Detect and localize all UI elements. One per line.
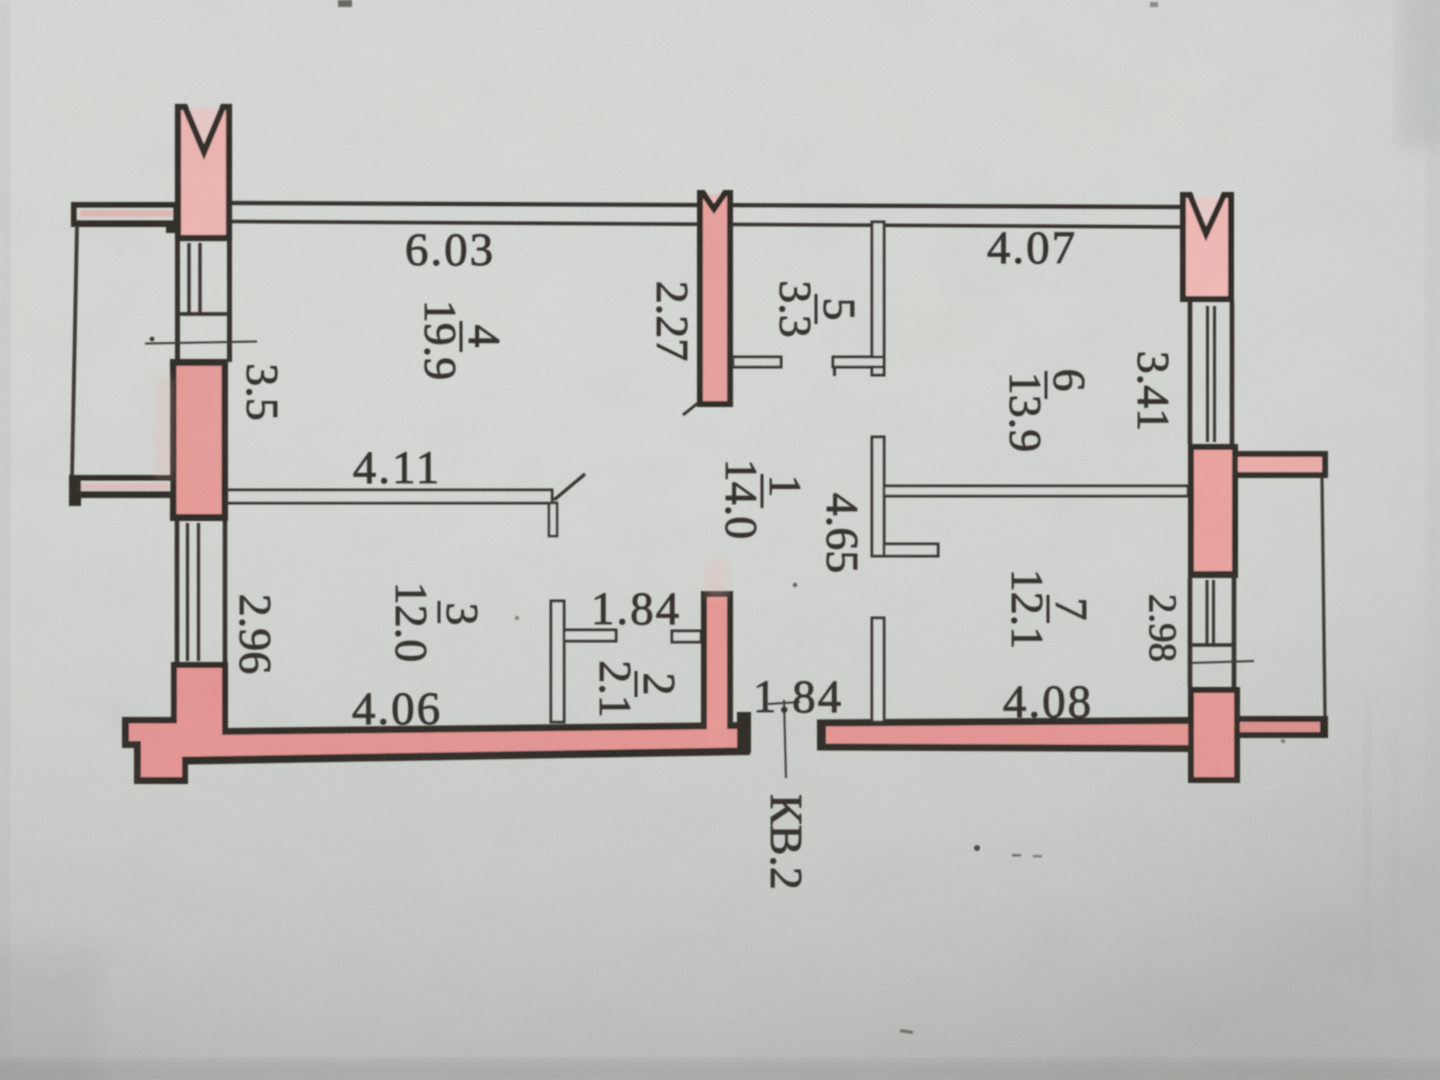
partition foot room 5 xyxy=(833,357,884,376)
partition rooms 1/7 (lower segment) xyxy=(872,618,884,722)
dimension text 2.27 rotated xyxy=(647,281,698,362)
dimension text 4.06 xyxy=(352,683,442,735)
balcony front line (left) xyxy=(72,226,77,476)
left wall window 1 glazing xyxy=(189,243,200,313)
top wall upper line xyxy=(232,203,1181,207)
room label 3/12.0 xyxy=(386,582,488,663)
dimension tick 2.98 xyxy=(1191,661,1254,663)
right wall window 2 glazing xyxy=(1207,580,1214,645)
right wall red block (middle) xyxy=(1188,444,1238,578)
center red wall 2.27 (V notch) xyxy=(683,193,730,415)
dimension text 6.03 xyxy=(405,224,495,276)
wall cross block bottom-right xyxy=(1188,687,1240,783)
ventilation block top-left (V notch) xyxy=(178,107,229,238)
left wall window 1 sill xyxy=(175,312,232,316)
partition rooms 5/6 xyxy=(872,222,884,375)
balcony front line (right) xyxy=(1322,478,1325,716)
dimension text 4.07 xyxy=(987,222,1077,274)
dimension text 4.11 xyxy=(353,442,442,494)
apartment label KV.2 rotated xyxy=(761,794,812,890)
dimension text 1.84 entrance xyxy=(753,671,843,723)
red wall room 2 / entrance xyxy=(701,591,751,753)
wall 4.11 between rooms 4/3 xyxy=(227,474,585,536)
paper specks xyxy=(338,0,1285,1034)
room label 2/2.1 xyxy=(590,660,685,718)
dimension text 4.65 rotated xyxy=(817,493,868,574)
stub wall right of center red wall xyxy=(733,357,781,367)
dimension text 3.5 rotated xyxy=(237,363,288,421)
balcony top wall (left) xyxy=(71,202,178,233)
dimension text 2.96 rotated xyxy=(230,594,281,675)
top wall lower line xyxy=(232,222,1181,228)
room label 7/12.1 xyxy=(1002,569,1097,650)
right wall window 1 faces xyxy=(1190,302,1232,444)
room label 1/14.0 xyxy=(716,459,811,540)
partition rooms 1/6 (mid segment) xyxy=(872,437,938,556)
dimension text 1.84 room 2 xyxy=(591,583,681,635)
partition rooms 3/2 xyxy=(551,601,564,722)
balcony bottom wall (left) xyxy=(69,475,175,506)
ventilation block top-right (V notch) xyxy=(1183,195,1231,299)
left wall window 1 faces xyxy=(178,241,230,362)
dimension text 2.98 rotated xyxy=(1141,594,1184,662)
room label 6/13.9 xyxy=(1000,369,1095,453)
red arm top of right balcony xyxy=(1232,451,1328,478)
bottom wall right segment xyxy=(817,717,1190,752)
pink smudge left of block xyxy=(155,378,173,478)
room 2 door stub left xyxy=(564,630,616,641)
left wall window 2 faces xyxy=(177,521,225,665)
room 2 door stub right xyxy=(672,631,701,642)
right wall window 1 glazing xyxy=(1208,306,1215,442)
balcony bottom bar (right) xyxy=(1240,716,1328,738)
red pencil streak above room 2 wall xyxy=(706,558,728,598)
right wall window 2 sill xyxy=(1188,643,1236,647)
entrance dimension line xyxy=(768,700,800,778)
right wall window 2 faces xyxy=(1190,578,1234,687)
room label 5/3.3 xyxy=(770,280,865,338)
room label 4/19.9 xyxy=(415,300,510,381)
bottom-left corner + bottom wall left segment xyxy=(122,662,750,784)
left wall window 2 glazing xyxy=(188,523,199,661)
dimension text 4.08 xyxy=(1003,676,1093,728)
room 6 bottom wall (double line) xyxy=(884,486,1188,496)
dimension line 3.5 xyxy=(145,337,257,344)
left middle wall block (red) xyxy=(170,359,228,521)
dimension text 3.41 rotated xyxy=(1128,351,1179,432)
